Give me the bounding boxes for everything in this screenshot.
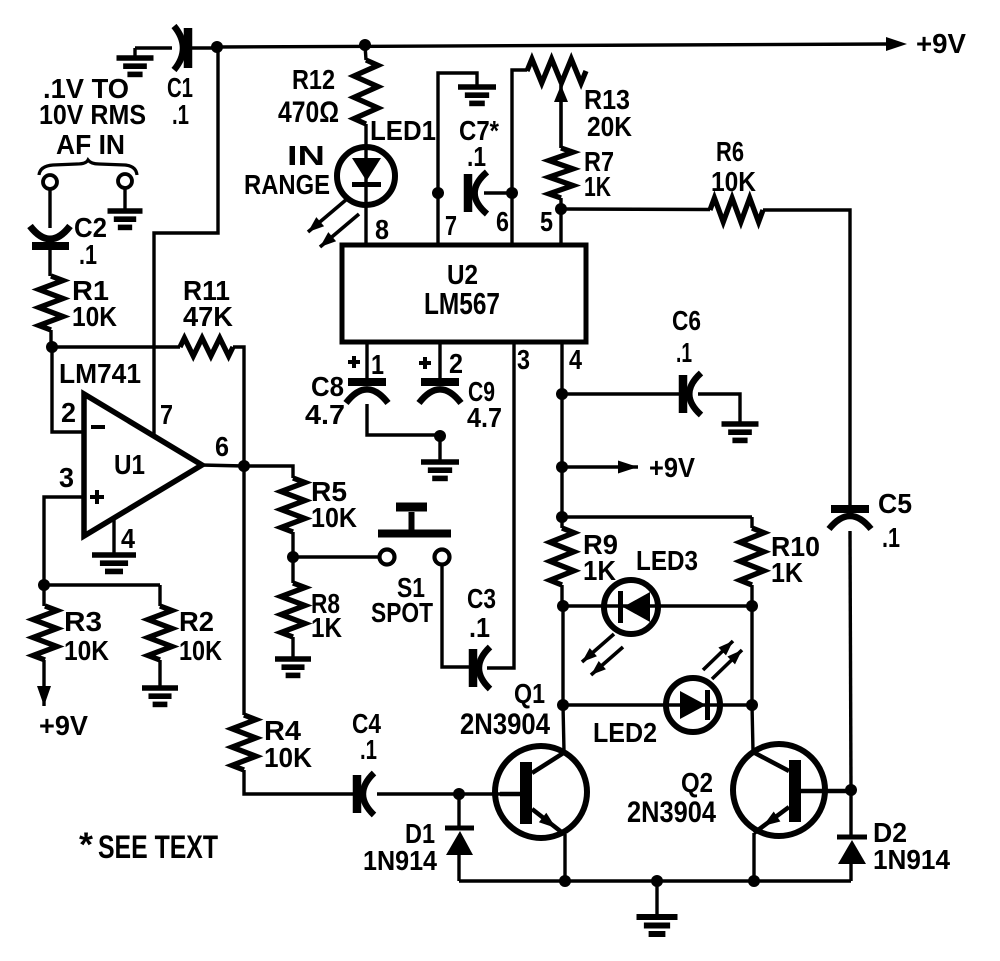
node C7 left junction xyxy=(432,187,444,199)
wire U2 pin 2 to C9 xyxy=(438,341,441,379)
wire node C to R5 xyxy=(244,466,293,478)
wire S1 to C3 xyxy=(442,565,470,667)
svg-text:3: 3 xyxy=(59,462,74,493)
wire U2 pin 7 to ground via C7 top xyxy=(438,73,477,246)
wire +9V rail top xyxy=(217,44,889,47)
wire C8 to C9 ground node xyxy=(367,404,440,435)
input terminal right xyxy=(118,174,132,188)
capacitor C5 xyxy=(829,509,871,529)
wire node G to R6 xyxy=(561,207,710,211)
wire right terminal to ground xyxy=(123,188,126,209)
switch S1 pushbutton xyxy=(378,507,451,565)
potentiometer R13 20K xyxy=(527,59,586,83)
wire node H to ground xyxy=(438,436,441,461)
pin 3 label xyxy=(517,344,530,375)
wire LED1 to U2 pin 8 xyxy=(364,205,367,246)
node K (pin4 line / R9 / R10 junction) xyxy=(556,511,568,523)
svg-text:R6: R6 xyxy=(716,136,744,167)
label R3 10K xyxy=(64,606,109,666)
wire node E to switch S1 xyxy=(293,555,380,558)
label R12 470ohm xyxy=(278,64,339,129)
svg-text:2N3904: 2N3904 xyxy=(627,796,716,829)
wire C1 to node A xyxy=(191,46,217,49)
wire D2 to bottom rail corner xyxy=(849,864,852,881)
svg-text:Q2: Q2 xyxy=(681,767,713,798)
wire C2 to R1 xyxy=(48,249,51,276)
svg-text:10K: 10K xyxy=(711,166,756,197)
label D1 1N914 xyxy=(363,818,437,876)
ground (op-amp pin 4) xyxy=(92,555,136,571)
ground (C7 / pin7 top) xyxy=(458,87,496,103)
svg-text:1N914: 1N914 xyxy=(363,845,437,876)
svg-text:R12: R12 xyxy=(292,64,335,95)
IC U2 LM567 box xyxy=(342,245,586,342)
label Q2 2N3904 xyxy=(627,767,716,829)
wire pin 3 input xyxy=(44,497,83,585)
node F (C4 / D1 / Q1 base junction) xyxy=(453,788,465,800)
svg-text:470Ω: 470Ω xyxy=(278,96,339,129)
wire R3 to +9V arrow xyxy=(37,660,51,706)
wire Q1 emitter to bottom rail xyxy=(563,834,566,881)
label C3 .1 xyxy=(467,583,496,643)
wire LED2 row xyxy=(563,703,752,706)
capacitor C6 xyxy=(683,373,701,415)
svg-text:10V RMS: 10V RMS xyxy=(39,99,146,130)
svg-text:5: 5 xyxy=(540,206,553,237)
node Q2 emitter junction xyxy=(748,875,760,887)
wire R11 to feedback node xyxy=(233,347,244,466)
wire R6 to right rail down to C5 xyxy=(763,210,850,506)
wire R12 to LED1 xyxy=(364,124,367,148)
svg-text:8: 8 xyxy=(375,214,389,245)
svg-text:20K: 20K xyxy=(587,111,632,142)
svg-text:6: 6 xyxy=(496,206,509,237)
wire left terminal to C2 xyxy=(48,189,51,228)
wire C6 to ground xyxy=(698,394,740,423)
svg-text:47K: 47K xyxy=(183,301,233,332)
label C6 .1 xyxy=(672,305,701,368)
pin 7 label xyxy=(445,210,457,241)
node I (pin4 / C6 junction) xyxy=(556,388,568,400)
wire node P to D2 xyxy=(849,790,852,835)
label C5 .1 xyxy=(878,488,912,553)
svg-text:7: 7 xyxy=(160,399,173,430)
wire U2 pin 4 down xyxy=(560,341,563,519)
svg-text:R2: R2 xyxy=(179,606,214,637)
svg-text:4.7: 4.7 xyxy=(467,402,502,433)
resistor R3 xyxy=(33,585,57,660)
label S1 SPOT xyxy=(371,572,433,628)
wire R2 to ground xyxy=(158,660,161,687)
resistor R1 xyxy=(39,276,63,330)
ground (R2) xyxy=(142,688,178,704)
svg-text:SEE TEXT: SEE TEXT xyxy=(98,829,218,865)
wire pin 6 output to node C xyxy=(201,465,244,466)
svg-text:.1: .1 xyxy=(172,99,189,130)
ground (input right terminal) xyxy=(108,211,143,227)
wire C5 to node P xyxy=(850,531,851,790)
wire D1 to bottom rail xyxy=(457,855,460,881)
node C (pin6 / R11 / R5 / R4 junction) xyxy=(238,460,250,472)
label LED3 xyxy=(636,545,698,576)
wire ground to C1 xyxy=(135,46,172,49)
svg-text:.1: .1 xyxy=(467,141,486,172)
wire V+ from node A to pin 7 xyxy=(154,47,218,436)
wire R4 to C4 xyxy=(244,770,353,794)
svg-text:10K: 10K xyxy=(264,742,312,773)
resistor R4 xyxy=(232,715,256,770)
node H (C8 / C9 / ground junction) xyxy=(434,430,446,442)
node Q1 emitter junction xyxy=(559,875,571,887)
R13 wiper arrow xyxy=(554,85,568,148)
wire U2 pin 6 up to R13 xyxy=(512,70,527,246)
svg-text:10K: 10K xyxy=(64,635,109,666)
wire Q1 base xyxy=(459,792,500,795)
ground (main bottom) xyxy=(637,917,678,934)
label +9V (R3 supply) xyxy=(39,710,88,741)
label R10 1K xyxy=(771,531,820,588)
wire R5 to node E xyxy=(291,532,294,557)
svg-text:LED3: LED3 xyxy=(636,545,698,576)
+9V supply arrow (Q1 side) xyxy=(562,452,695,483)
svg-text:.1: .1 xyxy=(469,612,490,643)
transistor Q2 2N3904 xyxy=(733,744,851,836)
LED3 xyxy=(604,580,658,634)
node C7 right junction on pin 6 line xyxy=(506,187,518,199)
label R9 1K xyxy=(583,529,618,586)
resistor R5 xyxy=(281,478,305,532)
resistor R7 xyxy=(549,148,573,198)
svg-text:C6: C6 xyxy=(672,305,701,336)
LED3 light arrows xyxy=(582,634,623,675)
node A (junction C1 / +9V rail / op-amp V+) xyxy=(211,41,223,53)
resistor R9 xyxy=(550,517,574,585)
capacitor C8 4.7 polarized xyxy=(346,382,388,403)
ground (R8) xyxy=(275,659,311,675)
wire R10 to node M xyxy=(750,585,753,606)
resistor R6 xyxy=(710,198,763,222)
svg-text:AF IN: AF IN xyxy=(56,129,125,160)
input terminal left xyxy=(43,175,57,189)
svg-text:10K: 10K xyxy=(311,502,357,533)
resistor R12 xyxy=(354,45,378,124)
wire C7 to pin 6 line xyxy=(484,191,512,194)
label R2 10K xyxy=(179,606,222,666)
wire node D to R2 xyxy=(44,583,160,586)
diode D1 1N914 xyxy=(445,828,474,855)
node M (R10 / LED3 cathode junction) xyxy=(746,600,758,612)
wire pin 4 to ground xyxy=(112,519,115,553)
wire ground stem xyxy=(655,881,658,916)
wire node B to R11 xyxy=(52,345,180,348)
label R5 10K xyxy=(311,476,357,533)
svg-text:1K: 1K xyxy=(771,557,803,588)
svg-text:.1: .1 xyxy=(882,522,900,553)
svg-text:10K: 10K xyxy=(179,635,222,666)
pin 8 label xyxy=(375,214,389,245)
label Q1 2N3904 xyxy=(460,678,550,741)
svg-text:4: 4 xyxy=(121,523,135,554)
svg-text:LM741: LM741 xyxy=(59,358,141,389)
wire node C to R4 xyxy=(242,466,245,715)
node N (LED2 anode / Q1 collector junction) xyxy=(557,699,569,711)
svg-text:.1: .1 xyxy=(676,337,692,368)
resistor R8 xyxy=(281,557,305,637)
label R8 1K xyxy=(311,588,342,643)
node E (R5 / R8 / S1 junction) xyxy=(287,551,299,563)
svg-text:LED2: LED2 xyxy=(593,717,657,748)
label R4 10K xyxy=(264,715,312,773)
capacitor C9 4.7 polarized xyxy=(419,382,461,403)
ground (C6) xyxy=(722,424,759,440)
label R13 20K xyxy=(584,84,632,142)
LED1 light arrows xyxy=(308,199,359,247)
capacitor C7 xyxy=(468,172,487,214)
label D2 1N914 xyxy=(873,817,950,875)
LED2 light arrows xyxy=(703,641,742,679)
node P (Q2 base / right rail junction) xyxy=(845,784,857,796)
wire R1 to node B xyxy=(49,330,52,347)
wire node F to D1 xyxy=(457,794,460,828)
wire C4 to node F xyxy=(377,792,459,795)
node D (pin3 / R3 / R2 junction) xyxy=(38,579,50,591)
svg-text:+9V: +9V xyxy=(649,452,695,483)
svg-text:*: * xyxy=(79,826,94,864)
svg-text:SPOT: SPOT xyxy=(371,597,433,628)
pin 2 label and plus xyxy=(419,348,463,379)
capacitor C2 xyxy=(30,226,70,246)
diode D2 1N914 xyxy=(837,837,867,864)
wire node I to C6 xyxy=(562,392,679,395)
wire U2 pin 1 to C8 xyxy=(365,341,368,379)
resistor R11 xyxy=(180,338,233,356)
svg-text:Q1: Q1 xyxy=(514,678,545,709)
capacitor C1 xyxy=(174,26,188,70)
svg-text:.1: .1 xyxy=(360,734,377,765)
svg-text:3: 3 xyxy=(517,344,530,375)
label C8 4.7 xyxy=(305,371,345,430)
svg-text:10K: 10K xyxy=(72,301,117,332)
label LM741 xyxy=(59,358,141,389)
svg-text:R3: R3 xyxy=(64,606,102,637)
svg-text:LED1: LED1 xyxy=(370,115,436,146)
label IN RANGE xyxy=(244,140,330,200)
wire bottom ground rail xyxy=(459,879,851,882)
node B (R1 / R11 / pin2 junction) xyxy=(46,341,58,353)
capacitor C3 xyxy=(473,647,490,689)
node L (R9 / LED3 anode junction) xyxy=(557,600,569,612)
op-amp U1 LM741 triangle xyxy=(84,394,202,536)
LED1 xyxy=(337,147,395,205)
svg-text:IN: IN xyxy=(287,140,325,171)
wire left rail node L to node N xyxy=(561,606,564,705)
svg-text:C5: C5 xyxy=(878,488,912,519)
svg-text:+9V: +9V xyxy=(39,710,88,741)
pin 4 label (U2) xyxy=(569,344,582,375)
node R12 junction on rail xyxy=(359,39,371,51)
capacitor C4 xyxy=(357,773,374,815)
wire Q1 collector xyxy=(563,705,564,751)
label C2 .1 xyxy=(74,212,107,270)
svg-text:7: 7 xyxy=(445,210,457,241)
node ground stem junction xyxy=(651,875,663,887)
label C4 .1 xyxy=(352,708,381,765)
pin 4 label xyxy=(121,523,135,554)
transistor Q1 2N3904 xyxy=(495,746,587,838)
svg-text:1: 1 xyxy=(371,349,384,380)
label R1 10K xyxy=(72,275,117,332)
wire pin 2 input xyxy=(52,347,83,432)
pin 2 label and minus sign xyxy=(61,397,105,428)
svg-text:2: 2 xyxy=(449,348,463,379)
label R11 47K xyxy=(183,275,233,332)
svg-text:1K: 1K xyxy=(584,171,611,202)
svg-text:.1: .1 xyxy=(79,239,97,270)
label R6 10K xyxy=(711,136,756,197)
label C9 4.7 xyxy=(467,376,502,433)
pin 6 label (U2) xyxy=(496,206,509,237)
svg-text:1K: 1K xyxy=(583,555,616,586)
pin 6 label xyxy=(215,431,229,462)
pin 3 label and plus sign xyxy=(59,462,104,504)
label R7 1K xyxy=(584,146,614,202)
wire right rail node M to node O xyxy=(750,606,753,705)
resistor R10 xyxy=(740,517,764,585)
svg-text:+9V: +9V xyxy=(916,28,966,59)
svg-text:1K: 1K xyxy=(311,612,342,643)
svg-text:C3: C3 xyxy=(467,583,496,614)
label U1 xyxy=(114,449,145,480)
note * SEE TEXT xyxy=(79,826,218,865)
pin 1 label and plus xyxy=(348,349,384,380)
svg-text:6: 6 xyxy=(215,431,229,462)
label LED2 xyxy=(593,717,657,748)
label C7* .1 xyxy=(459,115,499,172)
node G (R7 / R6 / pin 5 junction) xyxy=(555,203,567,215)
svg-text:2: 2 xyxy=(61,397,76,428)
wire R8 to ground xyxy=(291,637,294,658)
wire Q2 collector xyxy=(752,705,753,751)
ground (C1 input ground) xyxy=(117,48,154,74)
wire LED3 row xyxy=(563,604,752,607)
pin 7 label xyxy=(160,399,173,430)
wire C3 to U2 pin 3 xyxy=(487,344,514,668)
+9V rail arrow and label xyxy=(886,28,966,59)
svg-text:2N3904: 2N3904 xyxy=(460,708,550,741)
ground (C8/C9) xyxy=(421,462,459,478)
svg-text:U1: U1 xyxy=(114,449,145,480)
svg-text:1N914: 1N914 xyxy=(873,844,950,875)
wire Q2 emitter to bottom rail xyxy=(752,833,755,881)
label LED1 xyxy=(370,115,436,146)
svg-text:LM567: LM567 xyxy=(424,286,500,321)
wire R7 to U2 pin 5 xyxy=(559,198,562,246)
LED2 xyxy=(666,678,720,732)
svg-text:RANGE: RANGE xyxy=(244,169,330,200)
svg-text:4: 4 xyxy=(569,344,582,375)
svg-text:4.7: 4.7 xyxy=(305,399,345,430)
node J (pin4 / +9V supply junction) xyxy=(556,461,568,473)
input brace xyxy=(39,160,137,175)
svg-text:C8: C8 xyxy=(311,371,344,402)
node O (LED2 cathode / Q2 collector junction) xyxy=(746,699,758,711)
pin 5 label xyxy=(540,206,553,237)
resistor R2 xyxy=(148,585,172,660)
label U2 LM567 xyxy=(424,259,500,321)
label C1 .1 xyxy=(167,72,193,130)
label .1V TO 10V RMS AF IN xyxy=(39,73,146,160)
wire R9 to node L xyxy=(560,585,563,606)
wire node K to R10 xyxy=(562,515,752,518)
